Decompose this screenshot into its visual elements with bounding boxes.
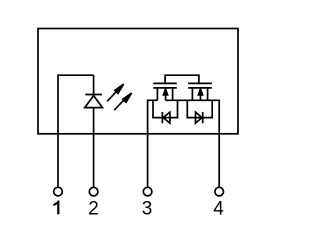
Q2 drain stub <box>207 88 209 100</box>
wire common source bus <box>166 99 220 101</box>
Q1 gate lead <box>164 74 166 84</box>
LED D1 triangle <box>85 96 103 108</box>
D3 cathode bar <box>202 112 204 123</box>
svg-text:3: 3 <box>142 198 153 219</box>
package outline box <box>38 29 238 134</box>
wire LED anode to pin 2 <box>93 108 95 187</box>
Q2 channel <box>188 87 212 89</box>
pin 3 terminal circle <box>143 187 152 196</box>
wire drain node to pin 3 <box>148 99 158 101</box>
Q2 gate lead <box>198 74 200 84</box>
Q1 source stub <box>172 88 174 100</box>
Q1 channel <box>153 87 177 89</box>
svg-text:2: 2 <box>88 198 99 219</box>
svg-text:4: 4 <box>213 198 224 219</box>
D2 body diode right drop <box>177 100 179 118</box>
D2 triangle <box>163 112 170 123</box>
D2 body diode left drop <box>152 100 154 118</box>
wire LED cathode drop <box>93 75 95 95</box>
pin 1 terminal circle <box>54 187 63 196</box>
wire pin 4 drop <box>218 100 220 187</box>
wire gate tie rail <box>165 74 199 76</box>
LED light emission arrow 1 <box>107 84 123 101</box>
wire LED top link <box>57 74 93 76</box>
D3 body diode left drop <box>186 100 188 118</box>
Q1 drain stub <box>156 88 158 100</box>
Q2 source stub <box>191 88 193 100</box>
pin 4 terminal circle <box>215 187 224 196</box>
D3 body diode right drop <box>211 100 213 118</box>
wire pin 1 riser <box>57 75 59 187</box>
D3 body diode bottom wire <box>187 117 214 119</box>
D2 body diode bottom wire <box>152 117 178 119</box>
pin 1 label <box>53 201 59 215</box>
Q1 gate plate <box>153 82 177 84</box>
LED light emission arrow 2 <box>114 93 131 110</box>
Q2 body arrow <box>198 89 202 100</box>
Q2 gate plate <box>188 82 212 84</box>
LED D1 cathode bar <box>85 94 102 96</box>
wire pin 3 drop <box>147 100 149 187</box>
D2 cathode bar <box>161 112 163 123</box>
pin 2 terminal circle <box>89 187 98 196</box>
Q1 body arrow <box>163 89 167 100</box>
D3 triangle <box>196 112 202 123</box>
